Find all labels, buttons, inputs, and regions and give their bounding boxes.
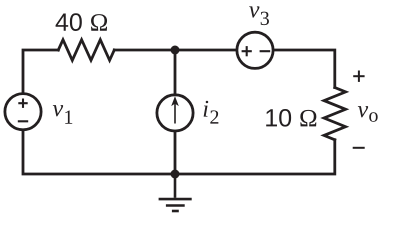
plus polarity mark inside v3: [242, 46, 252, 56]
wire: left branch, v1 top to top-left corner to 40-ohm resistor: [23, 50, 58, 92]
wire: top node to v3 left terminal: [175, 49, 237, 52]
wire: i2 bottom terminal to bottom node: [174, 131, 177, 174]
plus polarity mark for vo: [353, 71, 364, 82]
minus polarity mark inside v3: [260, 50, 271, 52]
plus polarity mark inside v1: [18, 99, 27, 108]
label v1: [53, 105, 72, 124]
wire: bottom node to bottom-left corner up to v1 bottom: [23, 131, 175, 174]
ground symbol: [159, 174, 192, 211]
voltage source v3 (circle): [237, 32, 273, 68]
resistor 10 ohm (vertical zigzag): [324, 88, 346, 140]
label v3: [249, 6, 269, 25]
label i2: [204, 101, 219, 124]
current arrow inside i2: [172, 98, 178, 124]
minus polarity mark for vo: [353, 147, 365, 149]
node dot: top junction: [171, 46, 180, 55]
value label 40 ohm: [56, 13, 107, 31]
wire: top node down to i2 top terminal: [174, 50, 177, 95]
value label 10 ohm: [266, 109, 316, 127]
wire: v3 right terminal to top-right corner down to 10-ohm resistor: [273, 50, 334, 88]
label vo: [358, 106, 378, 122]
voltage source v1 (circle): [5, 94, 41, 130]
current source i2 (circle): [157, 95, 193, 131]
wire: 10-ohm resistor to bottom-right corner to bottom node: [175, 140, 335, 174]
resistor 40 ohm (horizontal zigzag): [58, 40, 114, 61]
node dot: bottom junction: [171, 170, 180, 179]
wire: 40-ohm resistor to top node: [114, 49, 175, 52]
minus polarity mark inside v1: [18, 120, 28, 122]
